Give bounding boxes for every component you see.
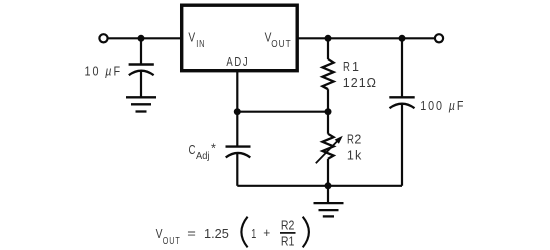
capacitor C-in 10uF curved plate [129, 71, 154, 76]
ground (bottom) [314, 203, 344, 216]
svg-text:1.25: 1.25 [204, 227, 229, 241]
formula fraction bar [280, 232, 296, 234]
svg-text:k: k [355, 149, 362, 163]
ADJ pin wire [236, 71, 238, 112]
capacitor C-out 100uF curved plate [390, 104, 415, 109]
svg-text:R2: R2 [281, 218, 295, 232]
wire input to regulator VIN [108, 37, 181, 39]
svg-text:OUT: OUT [271, 39, 291, 50]
formula right parenthesis [303, 217, 309, 248]
wire C-adj to bottom rail [236, 154, 238, 186]
svg-text:=: = [187, 227, 196, 241]
svg-text:IN: IN [196, 39, 205, 50]
ground (input cap) [126, 97, 156, 111]
wire VOUT to output terminal [296, 37, 434, 39]
op-amp/regulator box U1 [182, 5, 298, 71]
svg-text:1: 1 [251, 227, 256, 241]
capacitor C-adj curved plate [226, 153, 251, 158]
wire input node down to C1 [140, 38, 142, 64]
svg-text:R: R [347, 132, 354, 146]
output terminal [435, 34, 443, 42]
wire C-out to bottom rail [401, 104, 403, 186]
junction node: VOUT/C-out [399, 35, 406, 42]
junction node: R1/R2 [325, 108, 332, 115]
junction node: VOUT/R1 [325, 35, 332, 42]
svg-text:+: + [263, 226, 270, 240]
bottom rail wire [237, 185, 402, 187]
svg-text:121Ω: 121Ω [343, 76, 376, 90]
wire C1 to ground [140, 72, 142, 98]
resistor R2 zigzag [322, 134, 333, 159]
R2 wiper arrow shaft [316, 140, 338, 163]
wire R2 to bottom rail [327, 159, 329, 186]
svg-text:1: 1 [352, 60, 359, 74]
wire ADJ node down to C-adj [236, 112, 238, 146]
resistor R1 zigzag [322, 59, 333, 89]
junction node: bottom/ground [325, 182, 332, 189]
wire VOUT node down to R1 [327, 38, 329, 59]
capacitor C-out 100uF top plate [389, 96, 414, 98]
svg-text:R1: R1 [281, 235, 295, 249]
svg-text:1: 1 [347, 149, 354, 163]
junction node: input [138, 35, 145, 42]
svg-text:V: V [188, 31, 195, 45]
wire R1 to node [327, 89, 329, 112]
capacitor C-adj top plate [226, 145, 251, 147]
capacitor C-in 10uF top plate [129, 63, 154, 65]
wire output node down to C-out [401, 38, 403, 97]
svg-text:2: 2 [354, 132, 361, 146]
svg-text:Adj: Adj [196, 151, 210, 162]
wire node to R2 [327, 112, 329, 134]
svg-text:*: * [211, 142, 216, 156]
junction node: ADJ [234, 108, 241, 115]
input terminal [99, 34, 107, 42]
svg-text:OUT: OUT [163, 236, 181, 247]
svg-text:R: R [343, 60, 350, 74]
wire ADJ node to R1/R2 node [237, 111, 328, 113]
R2 wiper arrowhead [335, 136, 343, 144]
svg-text:100 µF: 100 µF [420, 99, 465, 113]
svg-text:C: C [189, 143, 196, 157]
wire bottom node to ground [327, 186, 329, 203]
formula left parenthesis [241, 217, 247, 248]
svg-text:ADJ: ADJ [226, 55, 249, 69]
svg-text:10 µF: 10 µF [85, 64, 123, 78]
